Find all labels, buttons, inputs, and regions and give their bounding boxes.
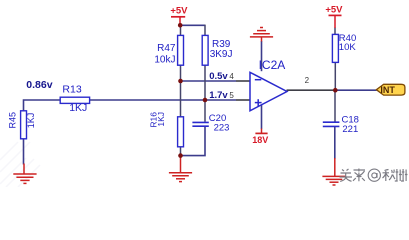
wire C18 bottom to ground [334,127,336,159]
wire +5V right to R40 top [334,28,336,35]
18V negative supply below op-amp [252,129,268,146]
pin 4 segment [236,80,251,82]
junction dot ground node [178,153,183,158]
svg-text:3K9J: 3K9J [210,49,233,60]
wire R45 bottom to ground [23,139,25,165]
resistor R39 [202,35,232,65]
wire R39 bottom to 1.7v node [204,65,206,100]
wire op-amp top supply [261,41,263,71]
wire R47 bottom down through 0.5v node to R16 top [180,65,182,117]
resistor R47 [154,35,183,65]
resistor R40 [332,33,356,62]
svg-text:+5V: +5V [325,4,343,15]
power +5V left [170,6,188,26]
svg-text:1.7v: 1.7v [209,90,228,101]
svg-text:IC2A: IC2A [259,58,286,72]
wire output junction to INT flag [335,89,376,91]
svg-text:10kJ: 10kJ [154,54,175,65]
svg-text:5: 5 [229,91,234,100]
pin 5 segment [236,99,251,101]
wire R40 bottom to output junction [334,62,336,90]
junction dot 0.5v node [178,79,183,84]
faint watermark stripes bottom-left [0,142,40,187]
capacitor C18 [323,115,359,136]
wire +5V junction to R47 and R39 tops [181,24,206,26]
svg-text:R45: R45 [7,112,17,129]
svg-text:4: 4 [229,72,234,81]
inverted ground above op-amp [250,28,273,42]
svg-text:223: 223 [214,123,230,134]
wire 1.7v net: R13 right to op-amp pin5 [90,99,237,101]
svg-text:10K: 10K [339,42,357,53]
INT port flag [376,84,405,95]
wire junction down to C18 top [334,90,336,121]
watermark 头条@秋壮壮 [340,169,408,182]
wire R16 bottom to ground node [180,147,182,157]
svg-text:R47: R47 [157,43,176,54]
pin 2 output segment [287,89,336,91]
svg-text:221: 221 [342,124,358,135]
resistor R13 [60,83,89,114]
svg-text:0.86v: 0.86v [26,79,52,91]
svg-text:18V: 18V [252,135,268,145]
junction dot +5V node [178,23,183,28]
svg-text:1KJ: 1KJ [69,102,87,114]
wire 0.5v net to op-amp pin4 [181,80,237,82]
capacitor C20 [192,113,229,134]
junction dot output node [333,88,338,93]
wire C20 bottom to ground node [181,127,206,156]
svg-text:+5V: +5V [170,6,188,17]
wire op-amp bottom supply [261,105,263,129]
wire R45 top corner to R13 [24,100,61,111]
svg-text:R13: R13 [62,83,81,95]
svg-text:1KJ: 1KJ [26,113,36,129]
ground (R16/C20 node) [169,156,192,182]
svg-text:INT: INT [380,85,395,95]
resistor R45 [7,111,36,139]
op-amp U1 IC2A [250,58,287,111]
resistor R16 [148,112,183,147]
power +5V right [325,4,343,28]
ground (R45) [13,164,36,184]
svg-text:0.5v: 0.5v [209,71,228,82]
svg-text:1KJ: 1KJ [156,112,166,127]
svg-text:2: 2 [305,76,310,85]
ground (C18) [322,158,345,185]
junction dot 1.7v node [203,98,208,103]
wire 1.7v node down to C20 top [204,100,206,122]
